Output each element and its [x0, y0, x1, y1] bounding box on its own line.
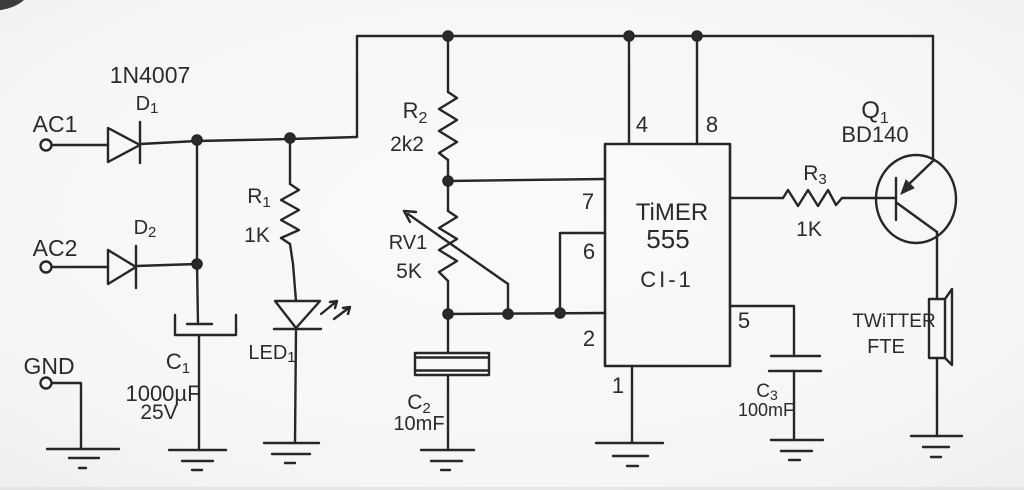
wire pin 5 to C3: [730, 306, 794, 356]
transistor Q1 emitter arrowhead: [901, 180, 914, 194]
node: pin7 junction: [443, 176, 452, 185]
terminal GND: [41, 378, 52, 389]
wire node to R1: [289, 138, 291, 184]
svg-text:2k2: 2k2: [390, 133, 424, 156]
op-amp/timer U1 555 box: [605, 144, 730, 366]
wire RV1 to C2: [447, 314, 449, 353]
wire pin 3 to R3: [730, 197, 783, 199]
wire R1 to LED1: [290, 244, 296, 301]
svg-text:RV1: RV1: [389, 232, 428, 254]
node: pin4 rail junction: [624, 31, 633, 40]
svg-text:7: 7: [582, 189, 594, 214]
node: wiper junction: [503, 309, 512, 318]
wire: rail drop to Q1 emitter: [932, 36, 934, 159]
wire Q1 collector to speaker: [936, 232, 938, 299]
transistor Q1: [876, 155, 956, 243]
wire pin 8 to rail: [696, 36, 698, 144]
wire node to pin 7: [448, 179, 605, 181]
wire speaker to ground: [936, 358, 938, 436]
resistor R1: [281, 184, 299, 244]
speaker TWITTER FTE: [929, 299, 945, 358]
node: RV1 bottom: [443, 309, 452, 318]
ground (GND): [47, 448, 119, 450]
wire AC2 to D2: [52, 266, 108, 268]
svg-text:1K: 1K: [796, 218, 822, 241]
svg-text:4: 4: [636, 112, 648, 137]
node: D2 junction: [192, 259, 201, 268]
svg-text:TWiTTER: TWiTTER: [852, 311, 935, 332]
corner smudge top-left: [0, 0, 30, 15]
wire rail to R2: [447, 36, 449, 92]
diode D2: [108, 250, 136, 284]
wire vertical trunk to C1: [197, 141, 198, 324]
LED LED1: [275, 301, 320, 328]
wire LED1 to ground: [295, 329, 296, 443]
RV1 wiper arrow: [404, 211, 508, 284]
svg-text:10mF: 10mF: [393, 413, 444, 435]
svg-text:100mF: 100mF: [738, 400, 794, 420]
capacitor C2: [415, 353, 489, 375]
wire D2 to node: [136, 264, 197, 266]
svg-text:5: 5: [738, 308, 750, 333]
node: R2 top: [443, 31, 452, 40]
ground (C2): [421, 449, 474, 451]
node: R1 top junction: [285, 133, 294, 142]
ground (LED1): [264, 442, 319, 444]
potentiometer RV1: [447, 181, 449, 211]
resistor R2: [439, 92, 457, 160]
wire C3 to ground: [793, 371, 795, 440]
svg-text:CI-1: CI-1: [640, 267, 694, 292]
LED arrows: [321, 301, 337, 314]
svg-text:AC1: AC1: [33, 111, 78, 137]
bottom edge shade: [0, 487, 1024, 490]
wire pin 4 to rail: [628, 36, 630, 144]
svg-text:8: 8: [706, 112, 718, 137]
svg-text:GND: GND: [23, 353, 74, 379]
wire GND to ground: [52, 383, 81, 449]
ground (speaker): [911, 435, 962, 437]
wire R3 to Q1 base: [842, 197, 896, 199]
node: pin6 junction: [555, 308, 564, 317]
wire pin 1 to ground: [631, 366, 633, 443]
wire trigger net to pin 2: [448, 313, 605, 314]
svg-text:TiMER: TiMER: [636, 199, 708, 226]
svg-text:AC2: AC2: [33, 235, 78, 261]
node: D1 junction: [192, 135, 201, 144]
diode D1: [108, 128, 140, 162]
terminal AC2: [41, 262, 52, 273]
svg-text:555: 555: [646, 224, 689, 254]
terminal AC1: [41, 140, 52, 151]
wire C2 to ground: [447, 375, 449, 450]
wire AC1 to D1: [52, 144, 108, 146]
node: pin8 rail junction: [692, 31, 701, 40]
wire pin 6 bracket: [560, 233, 605, 313]
ground (555 pin1): [596, 442, 663, 444]
capacitor C3: [771, 355, 820, 357]
svg-text:1N4007: 1N4007: [110, 62, 191, 88]
svg-text:6: 6: [583, 239, 595, 264]
ground (C1): [169, 449, 226, 451]
svg-text:25V: 25V: [140, 401, 177, 424]
svg-text:FTE: FTE: [867, 336, 905, 358]
svg-text:2: 2: [583, 326, 595, 351]
svg-text:1: 1: [612, 373, 624, 398]
svg-text:BD140: BD140: [841, 122, 908, 147]
wire R2 to node: [447, 160, 449, 181]
wire C1 to ground: [198, 335, 200, 450]
wire: top supply rail: [357, 36, 933, 137]
wire D1 to node: [140, 137, 357, 144]
capacitor C1: [187, 323, 212, 325]
svg-text:5K: 5K: [396, 260, 422, 283]
svg-text:1K: 1K: [244, 224, 270, 247]
ground (C3): [771, 439, 823, 441]
resistor R3: [783, 190, 842, 206]
